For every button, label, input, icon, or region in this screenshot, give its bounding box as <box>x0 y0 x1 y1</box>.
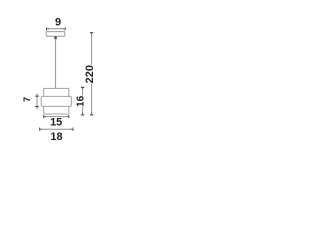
svg-text:220: 220 <box>84 65 96 83</box>
shade cylinder <box>44 88 69 114</box>
svg-text:16: 16 <box>75 95 86 107</box>
svg-text:15: 15 <box>50 117 62 129</box>
svg-text:7: 7 <box>22 97 33 102</box>
shade band <box>41 96 71 106</box>
svg-text:9: 9 <box>55 17 61 29</box>
svg-text:18: 18 <box>50 131 62 143</box>
dimension line 16 (shade height) <box>82 87 84 95</box>
dimension line 18 (band width) <box>40 128 73 130</box>
cord <box>55 39 57 88</box>
canopy (ceiling mount) <box>46 32 65 37</box>
cord stem <box>54 36 57 39</box>
dimension line 7 (band height) <box>36 93 38 109</box>
dimension line 220 (overall height) <box>91 33 93 65</box>
dimension line 15 (cylinder width) <box>44 116 69 118</box>
dimension line 9 (canopy width) <box>47 28 66 30</box>
